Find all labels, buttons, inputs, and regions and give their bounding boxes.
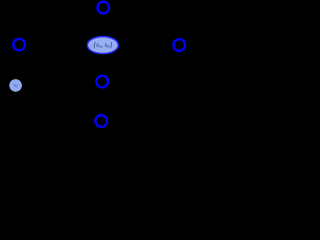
svg-text:{s1, s5}: {s1, s5} xyxy=(93,41,112,49)
node right circle xyxy=(173,39,185,51)
node middle-bottom circle xyxy=(96,76,108,88)
node bottom circle xyxy=(95,115,107,127)
node center ellipse {s1,s5} xyxy=(87,37,118,54)
node small filled circle s3 xyxy=(9,79,22,92)
node left circle xyxy=(13,39,25,51)
node top circle xyxy=(97,2,109,14)
